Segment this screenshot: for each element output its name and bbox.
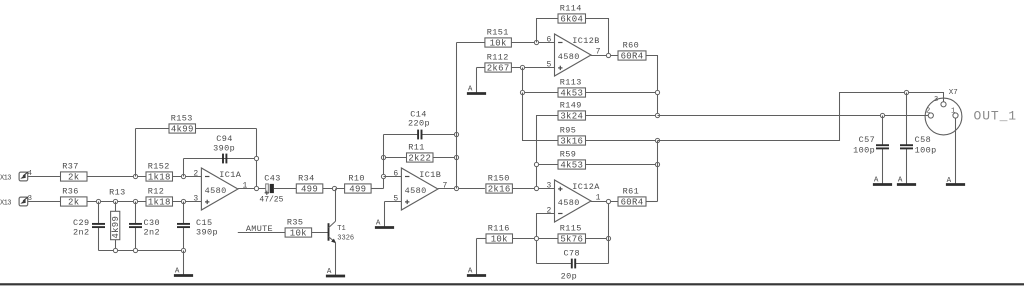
svg-text:2n2: 2n2 [73, 227, 90, 237]
capacitor C30 [135, 202, 137, 224]
connector X13 pin 4 [19, 172, 28, 181]
X7 pin 2 [928, 113, 933, 118]
resistor R60 [618, 51, 646, 60]
wire IC1A out [238, 188, 266, 190]
svg-text:2k: 2k [68, 173, 79, 183]
svg-text:A: A [175, 267, 180, 275]
node IC12A pin3 [534, 186, 538, 190]
node IC1B pin6 [381, 174, 385, 178]
node R13 bottom [113, 248, 117, 252]
wire feedback left vertical [135, 129, 137, 177]
resistor R151 [485, 38, 512, 47]
resistor R113 [523, 68, 559, 93]
wire R116 to R115 [513, 238, 559, 240]
resistor R150 [512, 188, 554, 190]
node R13 top [113, 199, 117, 203]
wire to IC1B pin6 [384, 176, 402, 178]
svg-text:A: A [874, 177, 879, 185]
svg-text:X13: X13 [0, 199, 11, 207]
svg-text:C57: C57 [859, 135, 876, 145]
svg-text:X7: X7 [949, 89, 958, 97]
ground A (input filter) [183, 251, 185, 276]
svg-text:R36: R36 [62, 187, 79, 197]
wire hot leg to XLR pin2 [658, 115, 929, 117]
svg-text:499: 499 [349, 185, 366, 195]
svg-text:6: 6 [546, 35, 551, 44]
svg-text:IC1B: IC1B [419, 170, 441, 180]
node C15 top [181, 199, 185, 203]
wire IC1B out column [456, 43, 458, 189]
svg-text:10k: 10k [490, 39, 507, 49]
node C29 top [96, 199, 100, 203]
node C57 top [880, 113, 884, 117]
node IC1A out [254, 186, 258, 190]
node R95 right [655, 138, 659, 142]
svg-text:4k99: 4k99 [171, 125, 194, 135]
connector X7 (XLR) [925, 98, 962, 135]
svg-text:R149: R149 [560, 101, 582, 111]
svg-text:2: 2 [193, 169, 198, 178]
svg-text:IC12A: IC12A [572, 182, 600, 192]
node R59 right [655, 162, 659, 166]
svg-text:10k: 10k [290, 229, 307, 239]
svg-text:X13: X13 [0, 174, 11, 182]
capacitor C14 [384, 134, 419, 136]
connector X13 pin 3 [19, 197, 28, 206]
node C94/pin2 [181, 174, 185, 178]
capacitor C58 [906, 93, 908, 145]
svg-text:4k53: 4k53 [560, 161, 583, 171]
svg-text:C78: C78 [564, 248, 581, 258]
capacitor C43 (polarized) [266, 184, 269, 193]
svg-text:R12: R12 [148, 187, 165, 197]
wire C43 to R34 [274, 188, 296, 190]
svg-text:R35: R35 [287, 218, 304, 228]
svg-text:390p: 390p [196, 227, 218, 237]
svg-text:R61: R61 [623, 187, 640, 197]
node R114 left [534, 40, 538, 44]
svg-text:2k: 2k [68, 198, 79, 208]
svg-text:100p: 100p [853, 146, 875, 156]
svg-text:390p: 390p [213, 144, 235, 154]
svg-text:5: 5 [393, 194, 398, 203]
ground bus wire [99, 250, 184, 252]
wire R112 left to ground [477, 67, 485, 69]
wire to R151 [457, 42, 485, 44]
node IC12B out [606, 53, 610, 57]
resistor R114 [537, 19, 559, 43]
svg-text:499: 499 [301, 185, 318, 195]
svg-text:60R4: 60R4 [621, 198, 644, 208]
resistor R35 [285, 228, 312, 237]
svg-text:R59: R59 [560, 150, 577, 160]
svg-text:4580: 4580 [205, 186, 227, 196]
svg-text:2: 2 [926, 107, 930, 115]
svg-text:R11: R11 [408, 143, 425, 153]
svg-text:4580: 4580 [558, 52, 580, 62]
svg-text:C15: C15 [196, 218, 213, 228]
svg-text:6k04: 6k04 [560, 15, 583, 25]
svg-text:3: 3 [193, 194, 198, 203]
svg-text:A: A [376, 219, 381, 227]
ground A (IC1B pin5) [384, 202, 386, 228]
svg-text:R115: R115 [560, 224, 582, 234]
svg-text:R112: R112 [487, 53, 509, 63]
ground A (R116) [476, 239, 478, 276]
wire R151 to IC12B pin6 [511, 42, 554, 44]
svg-text:3: 3 [934, 96, 938, 104]
svg-text:R34: R34 [298, 174, 315, 184]
svg-text:R113: R113 [560, 78, 582, 88]
svg-text:A: A [898, 177, 903, 185]
svg-text:R152: R152 [148, 162, 170, 172]
svg-text:R95: R95 [560, 126, 577, 136]
wire cold leg [658, 93, 944, 141]
svg-text:R150: R150 [488, 174, 510, 184]
wire R61 to cold column [646, 201, 658, 203]
svg-text:R60: R60 [623, 41, 640, 51]
resistor R10 [345, 184, 372, 193]
svg-text:4580: 4580 [405, 186, 427, 196]
wire R115 right [586, 238, 609, 240]
node C14 right [454, 132, 458, 136]
svg-text:C29: C29 [73, 218, 90, 228]
X7 pin 3 [941, 102, 946, 107]
node R113 right [655, 90, 659, 94]
wire IC1B input column [383, 135, 385, 189]
svg-text:220p: 220p [408, 119, 430, 129]
svg-text:R151: R151 [487, 28, 509, 38]
op-amp IC1A [201, 168, 238, 210]
svg-text:3: 3 [546, 181, 551, 190]
resistor R153 [136, 128, 170, 130]
svg-text:60R4: 60R4 [621, 52, 644, 62]
svg-text:4k99: 4k99 [111, 216, 121, 239]
resistor R149 [537, 116, 559, 189]
wire IC1B pin5 to ground [385, 201, 402, 203]
op-amp IC12B [555, 34, 592, 76]
node R11 right [454, 155, 458, 159]
wire IC12B out [591, 55, 618, 57]
svg-text:7: 7 [443, 181, 448, 190]
node IC12A out [606, 199, 610, 203]
node C94 right [254, 156, 258, 160]
wire R112 to IC12B pin5 [511, 67, 554, 69]
svg-text:3k16: 3k16 [560, 137, 583, 147]
wire R10 to IC1B input column [371, 188, 383, 190]
svg-text:3326: 3326 [337, 235, 354, 243]
wire cold output column [657, 141, 659, 202]
node IC12B pin5 [520, 65, 524, 69]
svg-text:2n2: 2n2 [144, 227, 161, 237]
resistor R59 [537, 164, 559, 166]
node C15 bottom / ground [181, 248, 185, 252]
capacitor C15 [183, 202, 185, 224]
svg-text:6: 6 [393, 169, 398, 178]
wire R35 to T1 base [312, 232, 329, 234]
svg-text:A: A [468, 85, 473, 93]
node IC1B out [454, 186, 458, 190]
wire IC12A pin2 [537, 214, 555, 264]
wire R60 to output column [646, 56, 658, 116]
capacitor C29 [98, 202, 100, 224]
resistor R13 (vertical) [115, 202, 117, 212]
node C30 top [133, 199, 137, 203]
wire X7 pin1 to ground [955, 118, 957, 184]
svg-text:1: 1 [243, 181, 248, 190]
svg-text:47/25: 47/25 [259, 195, 283, 204]
svg-text:OUT_1: OUT_1 [974, 108, 1018, 123]
wire C78 right column [608, 202, 610, 264]
svg-text:IC1A: IC1A [219, 170, 242, 180]
svg-text:5: 5 [546, 60, 551, 69]
wire AMUTE to R35 [238, 232, 285, 234]
op-amp IC12A [555, 180, 592, 222]
node R34/R10/T1 [332, 186, 336, 190]
svg-text:5k76: 5k76 [560, 235, 583, 245]
sheet border bottom [0, 283, 1024, 285]
svg-text:20p: 20p [561, 272, 578, 282]
resistor R152 [146, 172, 173, 181]
svg-text:R116: R116 [488, 224, 510, 234]
svg-text:A: A [947, 177, 952, 185]
wire R34 to R10 [323, 188, 345, 190]
svg-text:100p: 100p [915, 146, 937, 156]
svg-text:IC12B: IC12B [572, 36, 600, 46]
resistor R112 [485, 63, 512, 72]
node R115 right [606, 236, 610, 240]
resistor R61 [618, 197, 646, 206]
capacitor C78 [537, 263, 572, 265]
X7 pin 1 [953, 113, 958, 118]
resistor R37 [61, 172, 88, 181]
ground A (C57) [873, 183, 892, 186]
svg-text:1k18: 1k18 [148, 173, 171, 183]
svg-text:T1: T1 [337, 225, 345, 233]
svg-text:3k24: 3k24 [560, 112, 583, 122]
node R11 left [381, 155, 385, 159]
wire R36 to R12 [87, 201, 146, 203]
node C58 top [904, 90, 908, 94]
svg-text:A: A [327, 268, 332, 276]
resistor R36 [61, 197, 88, 206]
wire R152 to IC1A pin2 [173, 176, 202, 178]
transistor T1 [328, 223, 330, 241]
svg-text:4580: 4580 [558, 198, 580, 208]
wire R37 to R152 [87, 176, 146, 178]
ground A (C58) [897, 183, 916, 186]
svg-text:1: 1 [951, 107, 955, 115]
wire feedback right vertical [256, 129, 258, 189]
node R59 left [534, 162, 538, 166]
svg-text:C30: C30 [144, 218, 161, 228]
wire X13.4 to R37 [28, 176, 61, 178]
svg-text:1k18: 1k18 [148, 198, 171, 208]
svg-text:R37: R37 [62, 162, 79, 172]
resistor R34 [296, 184, 323, 193]
svg-text:A: A [468, 267, 473, 275]
svg-text:4k53: 4k53 [560, 89, 583, 99]
node C30 bottom [133, 248, 137, 252]
wire IC12A out [591, 201, 618, 203]
svg-text:R114: R114 [560, 4, 582, 14]
svg-text:2k22: 2k22 [408, 154, 431, 164]
capacitor C94 [184, 158, 257, 160]
op-amp IC1B [401, 168, 438, 210]
svg-text:10k: 10k [491, 235, 508, 245]
resistor R115 [558, 234, 586, 243]
svg-text:R10: R10 [348, 174, 365, 184]
resistor R95 [523, 93, 559, 141]
ground A (X7 pin1) [946, 183, 965, 186]
ground A (T1) [335, 243, 337, 277]
resistor R12 [146, 197, 173, 206]
resistor R11 [384, 157, 407, 159]
wire X13.3 to R36 [28, 201, 61, 203]
capacitor C57 [882, 116, 884, 145]
wire IC1B out [438, 188, 485, 190]
svg-text:C58: C58 [915, 135, 932, 145]
node R113 left [520, 90, 524, 94]
wire R12 to IC1A pin3 [173, 201, 202, 203]
ground A (R112) [476, 68, 478, 94]
svg-text:2k16: 2k16 [488, 185, 511, 195]
node R149 right [655, 113, 659, 117]
svg-text:2k67: 2k67 [487, 64, 510, 74]
node pin2/R116/R115 [534, 236, 538, 240]
svg-text:C43: C43 [264, 174, 281, 184]
resistor R116 [477, 238, 487, 240]
svg-text:R153: R153 [171, 114, 193, 124]
svg-text:R13: R13 [109, 188, 126, 198]
node R37/R152/R153 [133, 174, 137, 178]
